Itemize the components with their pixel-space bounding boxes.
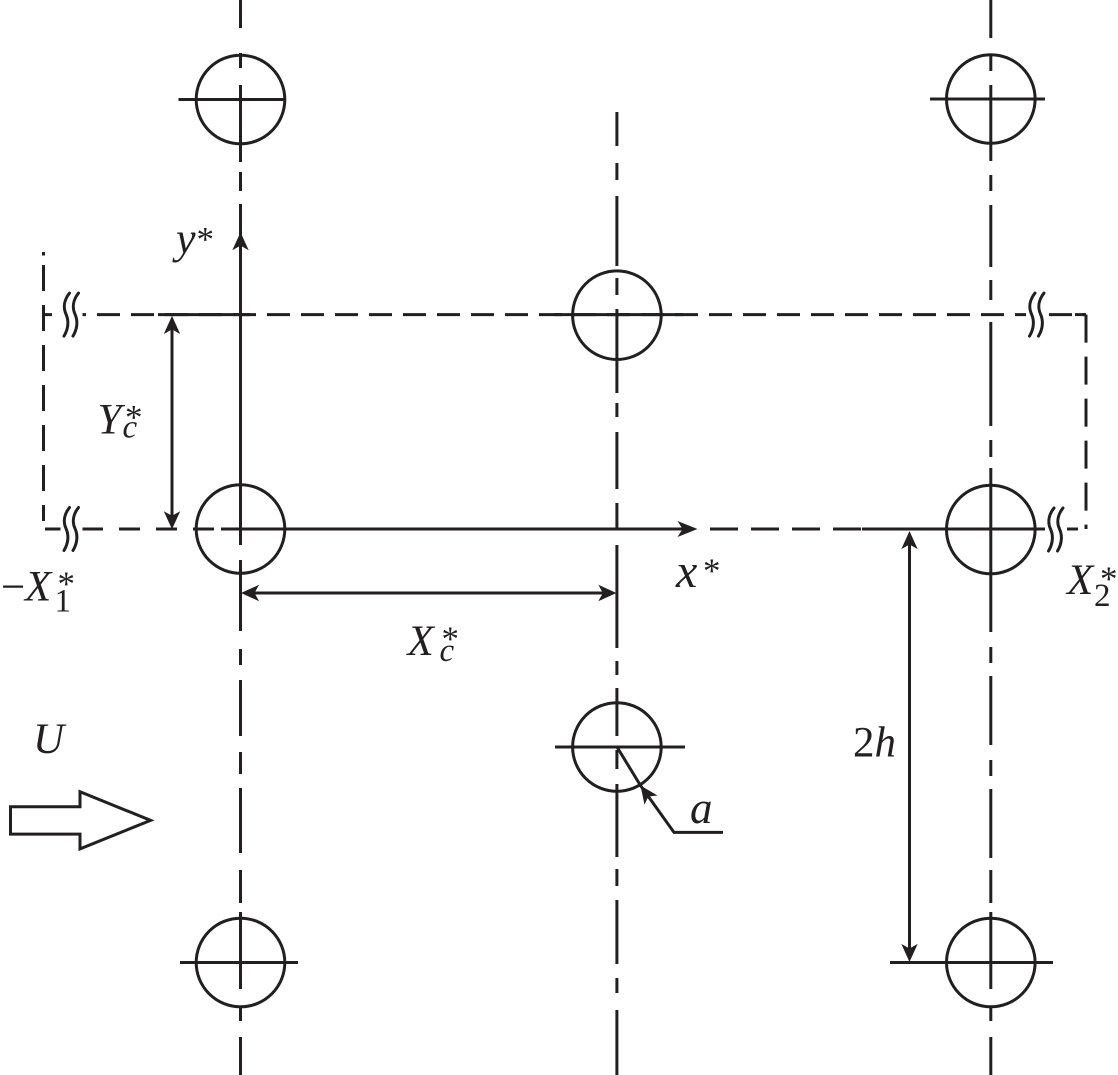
cylinder circle bottom-left xyxy=(196,918,285,1007)
centerline column 2 bottom long dash xyxy=(615,1010,618,1075)
centerline column 2 solid through mid-upper cylinder xyxy=(615,309,618,393)
centerline column 3 solid through top-right cylinder xyxy=(989,85,992,161)
unit cell bottom edge left dashed segment xyxy=(45,528,214,531)
cylinder circle bottom-right xyxy=(947,918,1036,1007)
centerline column 2 long dash below axis xyxy=(615,545,618,648)
cylinder circle top-left xyxy=(196,55,285,144)
centerline column 1 bottom dash xyxy=(239,1037,242,1075)
Yc* top arrowhead xyxy=(164,316,180,334)
unit cell right edge (dashed) xyxy=(1085,315,1088,529)
svg-text:1: 1 xyxy=(55,584,72,620)
centerline column 2 short dash above mid-lower cylinder xyxy=(615,661,618,675)
centerline column 1 short dash above y-axis arrow xyxy=(239,172,242,191)
cylinder circle origin xyxy=(196,485,285,574)
svg-text:X: X xyxy=(23,564,53,611)
unit cell top edge solid segment near y-axis xyxy=(158,313,250,316)
squiggle break bottom-left xyxy=(61,505,83,553)
svg-text:x: x xyxy=(675,545,697,598)
centerline column 3 short dash inside top-right cylinder xyxy=(989,55,992,71)
unit cell left edge (dashed) xyxy=(42,265,45,521)
svg-text:Y: Y xyxy=(98,397,126,444)
svg-text:c: c xyxy=(123,410,138,446)
svg-text:*: * xyxy=(197,220,215,259)
centerline column 1 long dash xyxy=(239,788,242,853)
centerline column 2 short dash xyxy=(615,163,618,180)
svg-text:−: − xyxy=(1,564,25,611)
unit cell bottom edge right dashed segment xyxy=(710,528,861,531)
short stub right of squiggle on bottom edge xyxy=(1066,528,1078,531)
centerline column 2 long dash into mid-lower cylinder xyxy=(615,688,618,736)
centerline column 1 long dash xyxy=(239,680,242,736)
Yc* bottom arrowhead xyxy=(164,511,180,529)
svg-text:*: * xyxy=(703,552,721,591)
centerline column 3 dash below bottom-right cylinder center xyxy=(989,1008,992,1021)
centerline column 2 long dash xyxy=(615,432,618,489)
svg-text:X: X xyxy=(406,618,436,665)
Xc* right arrowhead xyxy=(598,585,616,601)
crosshair cylinder top-right xyxy=(930,98,1045,101)
centerline column 2 dash across x-axis xyxy=(615,503,618,530)
crosshair cylinder mid-lower xyxy=(555,746,685,749)
centerline column 1 solid through top-left cylinder xyxy=(239,85,242,162)
svg-text:X: X xyxy=(1065,557,1095,604)
unit cell top edge corner dash xyxy=(1075,313,1086,316)
2h dimension line xyxy=(908,535,911,958)
centerline column 3 short dash xyxy=(989,647,992,663)
centerline column 1 short dash xyxy=(239,752,242,774)
cylinder circle top-right xyxy=(947,55,1036,144)
centerline column 3 short dash xyxy=(989,870,992,903)
centerline column 2 short dash inside mid-upper cylinder xyxy=(615,278,618,295)
svg-text:c: c xyxy=(440,633,455,669)
svg-text:U: U xyxy=(33,716,67,763)
cylinder circle mid-upper xyxy=(573,271,662,360)
svg-text:2: 2 xyxy=(1094,578,1111,614)
Xc* dimension line xyxy=(245,592,613,595)
centerline column 3 short dash above right-origin cylinder xyxy=(989,440,992,457)
centerline column 2 short dash lower xyxy=(615,978,618,993)
centerline column 3 bottom dash xyxy=(989,1037,992,1075)
centerline column 1 solid through origin cylinder down xyxy=(239,204,242,545)
centerline column 3 short dash xyxy=(989,175,992,191)
centerline column 1 short dash xyxy=(239,870,242,903)
squiggle break top-right xyxy=(1026,291,1048,339)
centerline column 1 dash below bottom-left cylinder center xyxy=(239,1008,242,1021)
centerline column 3 long dash xyxy=(989,789,992,858)
y* axis line xyxy=(239,247,242,529)
centerline column 2 long dash xyxy=(615,196,618,266)
crosshair + solid run cylinder right-origin-row xyxy=(862,528,1046,531)
centerline column 1 short dash above top-left cylinder xyxy=(239,53,242,68)
block arrow U xyxy=(11,792,151,849)
svg-text:y: y xyxy=(172,214,196,263)
x* axis line (origin crosshair through arrow) xyxy=(221,528,684,531)
centerline column 3 top dash xyxy=(989,0,992,38)
centerline column 2 short dash below cylinder xyxy=(615,403,618,417)
Yc* dimension line xyxy=(171,319,174,526)
crosshair cylinder top-left xyxy=(179,98,285,101)
centerline column 1 top dash xyxy=(239,0,242,28)
centerline column 3 solid through right-origin-row cylinder xyxy=(989,468,992,632)
centerline column 3 long dash xyxy=(989,205,992,267)
unit cell top edge (dashed) xyxy=(45,313,1086,316)
svg-text:2h: 2h xyxy=(853,720,896,767)
centerline column 1 dash below origin center xyxy=(239,560,242,631)
x axis arrowhead xyxy=(678,521,698,537)
squiggle break top-left xyxy=(61,291,83,339)
centerline column 2 long dash xyxy=(615,900,618,964)
squiggle break bottom-right xyxy=(1045,506,1067,554)
leader line for a xyxy=(641,786,724,833)
crosshair cylinder bottom-left xyxy=(180,961,298,964)
a leader arrowhead xyxy=(641,786,658,805)
svg-text:a: a xyxy=(690,783,713,833)
cylinder circle right-origin-row xyxy=(947,485,1036,574)
centerline column 3 short dash xyxy=(989,280,992,300)
2h top arrowhead xyxy=(901,531,917,549)
centerline column 2 solid through mid-lower cylinder bottom xyxy=(615,784,618,857)
centerline column 2 short dash xyxy=(615,869,618,886)
crosshair cylinder mid-upper xyxy=(554,313,683,316)
y axis arrowhead xyxy=(232,232,248,250)
radius line a xyxy=(617,747,641,786)
2h bottom arrowhead xyxy=(901,944,917,962)
cylinder circle mid-lower xyxy=(573,703,662,792)
centerline column 3 long dash xyxy=(989,676,992,745)
crosshair cylinder bottom-right xyxy=(890,961,1053,964)
centerline column 3 short dash xyxy=(989,760,992,776)
Xc* left arrowhead xyxy=(241,585,259,601)
centerline column 2 top dash xyxy=(615,112,618,146)
centerline column 1 solid through bottom-left cylinder xyxy=(239,912,242,989)
unit cell left edge top dot xyxy=(42,252,45,256)
centerline column 2 dash across mid-lower cylinder center xyxy=(615,750,618,769)
centerline column 3 long dash across top edge xyxy=(989,322,992,426)
centerline column 1 short dash xyxy=(239,649,242,665)
centerline column 3 solid through bottom-right cylinder xyxy=(989,912,992,989)
